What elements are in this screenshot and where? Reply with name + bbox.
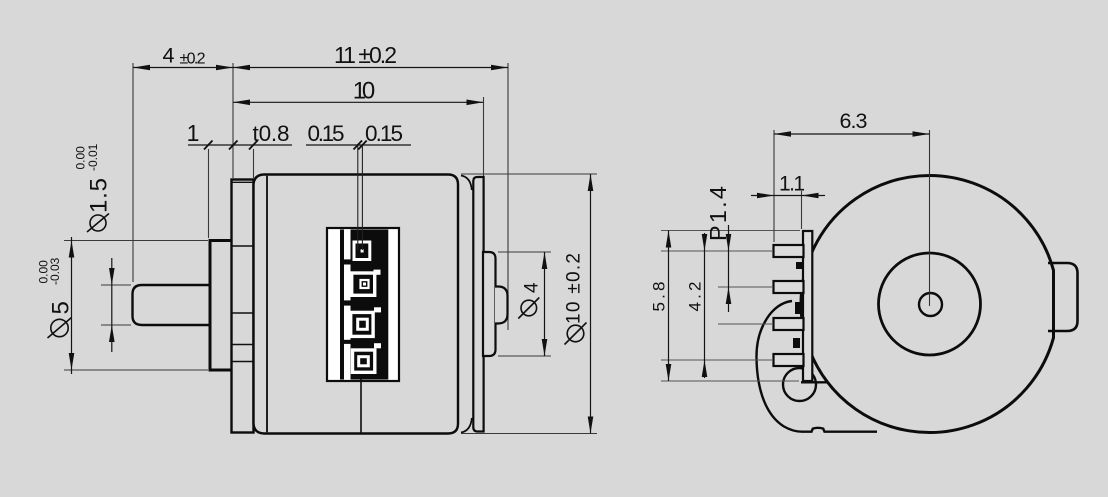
svg-text:1.5: 1.5: [86, 178, 113, 213]
svg-text:4.2: 4.2: [686, 282, 705, 312]
svg-text:5.8: 5.8: [650, 282, 669, 312]
svg-text:4: 4: [522, 282, 543, 293]
svg-text:t0.8: t0.8: [253, 121, 290, 146]
svg-text:1: 1: [187, 120, 200, 146]
svg-text:11 ±0.2: 11 ±0.2: [334, 42, 397, 68]
svg-text:P1.4: P1.4: [705, 186, 731, 241]
svg-text:-0.01: -0.01: [86, 143, 100, 171]
svg-text:-0.03: -0.03: [48, 257, 62, 285]
svg-text:1.1: 1.1: [779, 173, 805, 196]
svg-text:0.15: 0.15: [365, 121, 403, 146]
svg-text:±0.2: ±0.2: [180, 51, 206, 68]
svg-text:4: 4: [163, 44, 175, 68]
svg-text:10: 10: [353, 78, 376, 105]
svg-text:0.15: 0.15: [308, 121, 345, 146]
svg-text:6.3: 6.3: [840, 109, 868, 133]
svg-text:5: 5: [48, 301, 75, 314]
